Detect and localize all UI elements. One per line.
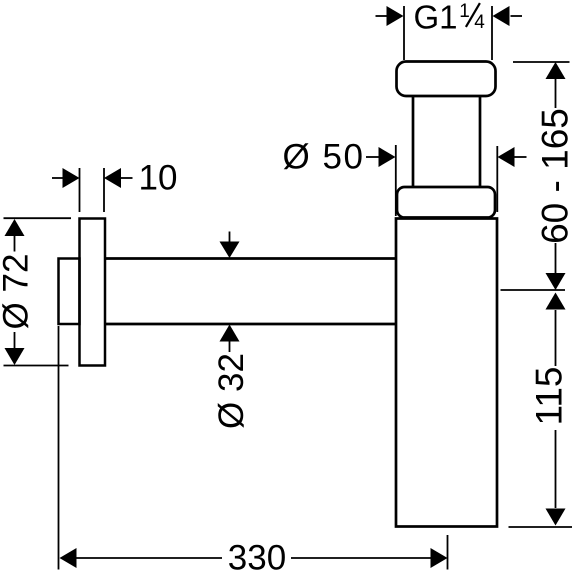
wall pipe stub <box>59 259 80 325</box>
G1 1/4 extension line right <box>491 6 493 60</box>
dia72 dimension line upper segment <box>14 236 16 252</box>
dia72 top arrow (points up) <box>5 219 25 236</box>
svg-text:330: 330 <box>228 539 286 577</box>
bottom extension line (body base) <box>509 526 573 528</box>
svg-text:Ø 72: Ø 72 <box>0 254 36 330</box>
horizontal waste pipe top wall <box>105 257 396 260</box>
60-165 top extension line <box>513 61 570 63</box>
G1 1/4 right arrow (points left) <box>493 6 510 26</box>
115 dimension line lower segment <box>555 430 557 508</box>
115 dimension line upper segment <box>555 310 557 366</box>
330 right arrow (points right) <box>431 548 448 568</box>
dia72 dimension line lower segment <box>14 332 16 349</box>
330 left arrow (points left) <box>60 548 77 568</box>
svg-text:Ø 32: Ø 32 <box>212 353 251 429</box>
lower union nut <box>397 187 495 218</box>
svg-text:10: 10 <box>139 159 178 198</box>
dia50 leader tail left <box>366 156 379 158</box>
G1 1/4 left arrow (points right) <box>387 6 404 26</box>
svg-text:G1: G1 <box>414 0 458 36</box>
10 left arrow (points right) <box>63 168 80 188</box>
G1 1/4 right arrow tail <box>511 15 523 17</box>
dia32 bottom arrow (points up) <box>220 325 240 342</box>
svg-text:4: 4 <box>474 12 485 33</box>
330 dimension line left segment <box>76 557 222 559</box>
60-165 top arrow (points up) <box>546 62 566 79</box>
svg-text:115: 115 <box>529 367 570 426</box>
dia50 extension line right <box>496 146 498 212</box>
dia72 extension line bottom <box>4 365 69 367</box>
60-165 dimension line upper segment <box>555 79 557 108</box>
dia32 bottom arrow tail <box>229 340 231 352</box>
svg-text:1: 1 <box>459 1 470 22</box>
60-165 dimension line lower segment <box>555 243 557 273</box>
svg-text:60 - 165: 60 - 165 <box>535 108 576 244</box>
330 right extension line <box>447 535 449 570</box>
dia50 leader tail right <box>515 156 527 158</box>
60-165 bottom arrow (points down) <box>546 273 566 290</box>
dia50 right arrow (points left) <box>498 147 515 167</box>
wall flange <box>80 219 106 366</box>
115 bottom arrow (points down) <box>546 509 566 526</box>
trap body <box>396 219 497 527</box>
mid extension line (pipe axis) <box>501 289 566 291</box>
dia50 extension line left <box>395 145 397 216</box>
label 1/4 fraction slash <box>466 3 480 27</box>
riser pipe right wall <box>479 96 482 188</box>
10 extension line right <box>103 168 105 212</box>
330 left extension line <box>58 326 60 570</box>
riser pipe left wall <box>412 96 415 188</box>
10 left arrow tail <box>52 177 63 179</box>
horizontal waste pipe bottom wall <box>105 323 396 326</box>
svg-text:Ø 50: Ø 50 <box>283 138 365 177</box>
10 extension line left <box>79 168 81 212</box>
G1 1/4 left arrow tail <box>376 15 388 17</box>
G1 1/4 extension line left <box>403 6 405 60</box>
10 right arrow tail <box>121 177 133 179</box>
330 dimension line right segment <box>291 557 431 559</box>
dia50 left arrow (points right) <box>379 147 396 167</box>
10 right arrow (points left) <box>104 168 121 188</box>
dia72 extension line top <box>4 217 72 219</box>
dia72 bottom arrow (points down) <box>5 348 25 365</box>
dia32 top arrow (points down) <box>220 242 240 259</box>
dia32 top arrow tail <box>229 232 231 244</box>
115 top arrow (points up) <box>546 293 566 310</box>
top union nut <box>397 62 496 97</box>
